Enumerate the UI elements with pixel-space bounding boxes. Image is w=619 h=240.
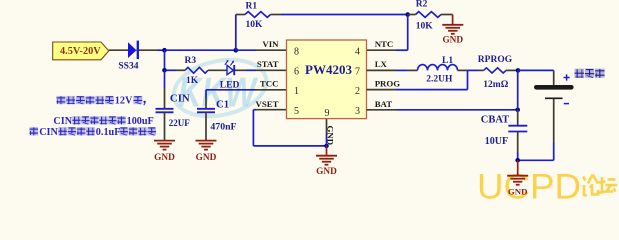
node F junction	[516, 68, 521, 73]
svg-text:1K: 1K	[186, 76, 199, 86]
svg-text:CIN: CIN	[53, 116, 72, 127]
wire R1 to node C	[281, 14, 408, 16]
power flag 4.5V-20V	[53, 42, 109, 60]
label R2	[416, 0, 428, 10]
watermark KKW text	[178, 69, 259, 116]
wire node F to battery	[518, 70, 554, 85]
svg-text:100uF: 100uF	[127, 116, 154, 127]
pin numbers of U1	[294, 46, 360, 119]
svg-text:STAT: STAT	[257, 59, 279, 69]
wire TCC to C1	[206, 90, 256, 108]
battery plus sign	[564, 74, 570, 80]
svg-text:RPROG: RPROG	[478, 55, 513, 65]
label GND at CIN	[154, 153, 175, 163]
capacitor C1	[197, 109, 215, 113]
label L1	[442, 56, 453, 66]
watermark UCPD text	[477, 168, 581, 207]
ground symbol at R2	[442, 15, 463, 34]
node C junction	[405, 12, 410, 17]
label LED	[220, 81, 240, 91]
op-amp U1 PW4203 body	[287, 40, 367, 119]
svg-text:GND: GND	[325, 126, 335, 146]
svg-text:12V: 12V	[115, 96, 133, 107]
ground symbol at CIN	[154, 141, 175, 150]
node D junction	[162, 68, 167, 73]
label GND at R2	[442, 36, 463, 46]
svg-text:470nF: 470nF	[210, 122, 236, 133]
annotation line 3 和CIN并联一个0.1uF贴片电容	[30, 127, 157, 138]
label CBAT	[481, 114, 509, 125]
pin name labels of U1	[256, 39, 401, 109]
svg-text:CIN: CIN	[39, 127, 58, 138]
svg-text:0.1uF: 0.1uF	[96, 127, 121, 138]
svg-text:VIN: VIN	[262, 39, 279, 49]
pin 9 GND stub	[326, 119, 328, 146]
svg-text:NTC: NTC	[375, 39, 394, 49]
ground symbol at C1	[196, 141, 217, 150]
inductor L1	[407, 65, 468, 71]
pin NTC stub	[367, 49, 397, 51]
pin VSET stub	[256, 109, 287, 111]
wire node D down to CIN	[164, 70, 166, 108]
svg-text:2: 2	[355, 86, 360, 97]
pin LX stub	[367, 69, 408, 71]
svg-text:BAT: BAT	[375, 99, 393, 109]
wire node F down to node G	[517, 70, 519, 109]
watermark KKW logo swoosh arc	[168, 52, 271, 124]
label CIN	[170, 92, 190, 104]
node A junction	[162, 48, 167, 53]
svg-text:5: 5	[294, 106, 299, 117]
wire riser node B to R1	[236, 15, 245, 51]
svg-text:R1: R1	[246, 1, 258, 11]
label SS34	[118, 61, 138, 71]
pin PROG stub	[367, 89, 397, 91]
label RPROG	[478, 55, 513, 65]
svg-text:2.2UH: 2.2UH	[426, 74, 453, 84]
svg-text:C1: C1	[216, 99, 229, 111]
wire LED to STAT pin	[235, 69, 256, 71]
wire diode to node A	[139, 49, 165, 51]
label GND at C1	[196, 153, 217, 163]
svg-text:4: 4	[355, 46, 360, 57]
node H junction	[515, 158, 520, 163]
capacitor CIN	[156, 109, 174, 113]
svg-text:CBAT: CBAT	[481, 114, 509, 125]
label GND at CBAT	[508, 186, 528, 196]
ground symbol under IC	[316, 146, 337, 165]
wire PROG riser	[396, 70, 468, 89]
pin VIN stub	[256, 49, 287, 51]
wire node B to VIN pin	[236, 49, 256, 51]
svg-text:22UF: 22UF	[169, 118, 190, 128]
svg-text:9: 9	[325, 108, 330, 119]
label 2.2UH of L1	[426, 74, 453, 84]
resistor R3	[185, 67, 227, 73]
svg-text:6: 6	[294, 66, 299, 77]
wire BAT to node G	[396, 109, 518, 111]
label R1	[246, 1, 258, 11]
resistor R1	[245, 12, 281, 18]
svg-text:GND: GND	[196, 153, 217, 163]
wire node C to NTC pin	[396, 15, 408, 51]
svg-text:R2: R2	[416, 0, 428, 10]
svg-text:GND: GND	[508, 186, 528, 196]
watermark CJK char 论	[583, 175, 598, 196]
wire L1 to RPROG	[468, 69, 479, 71]
ground symbol at CBAT	[507, 160, 528, 184]
label 10UF of CBAT	[485, 136, 508, 147]
svg-text:8: 8	[294, 46, 299, 57]
svg-text:3: 3	[355, 106, 360, 117]
wire flag to diode	[109, 49, 128, 51]
svg-text:10K: 10K	[246, 20, 264, 30]
svg-text:GND: GND	[442, 36, 463, 46]
node E junction	[324, 144, 329, 149]
resistor RPROG	[478, 68, 518, 73]
svg-text:TCC: TCC	[260, 78, 279, 88]
svg-text:10UF: 10UF	[485, 136, 508, 147]
label C1	[216, 99, 229, 111]
svg-text:L1: L1	[442, 56, 453, 66]
annotation line 1 输入电压大于12V时	[57, 96, 146, 107]
wire VSET to GND net	[253, 110, 326, 146]
annotation line 2 CIN改用电解电容100uF	[53, 116, 153, 127]
node B junction	[234, 48, 239, 53]
svg-text:7: 7	[355, 66, 360, 77]
pin BAT stub	[367, 109, 397, 111]
wire node A down to node D	[164, 50, 166, 70]
label R3	[185, 56, 197, 66]
label 10K of R1	[246, 20, 264, 30]
svg-text:4.5V-20V: 4.5V-20V	[60, 46, 101, 57]
label 1K of R3	[186, 76, 199, 86]
svg-text:12mΩ: 12mΩ	[483, 80, 508, 90]
wire C1 to ground	[205, 112, 207, 140]
svg-text:UCPD: UCPD	[477, 168, 581, 201]
node G junction	[515, 108, 520, 113]
label GND under IC	[316, 167, 337, 177]
label 12m&#937; of RPROG	[483, 80, 508, 90]
svg-text:PROG: PROG	[375, 78, 401, 88]
LED D2	[225, 60, 234, 75]
label 10K of R2	[416, 21, 434, 31]
svg-text:CIN: CIN	[170, 92, 190, 104]
pin TCC stub	[256, 89, 287, 91]
svg-text:R3: R3	[185, 56, 197, 66]
svg-text:GND: GND	[154, 153, 175, 163]
svg-text:VSET: VSET	[256, 99, 279, 109]
wire CIN to ground	[164, 112, 166, 140]
label battery 锂电池	[575, 69, 605, 78]
battery BT1 plates	[536, 87, 571, 98]
svg-text:GND: GND	[316, 167, 337, 177]
pin STAT stub	[256, 69, 287, 71]
battery minus sign	[564, 103, 569, 105]
svg-text:10K: 10K	[416, 21, 434, 31]
svg-text:1: 1	[294, 86, 299, 97]
svg-text:PW4203: PW4203	[305, 62, 352, 77]
wire node D to R3	[165, 69, 186, 71]
wire node A to node B	[165, 49, 236, 51]
resistor R2	[408, 12, 453, 18]
label 22UF of CIN	[169, 118, 190, 128]
label 470nF of C1	[210, 122, 236, 133]
diode D1 SS34	[128, 41, 139, 60]
watermark CJK char 坛	[598, 177, 618, 193]
label GND rotated at pin 9	[325, 126, 335, 146]
wire battery negative return	[518, 99, 554, 160]
svg-text:LX: LX	[375, 59, 388, 69]
capacitor CBAT	[508, 110, 527, 161]
svg-text:SS34: SS34	[118, 61, 138, 71]
